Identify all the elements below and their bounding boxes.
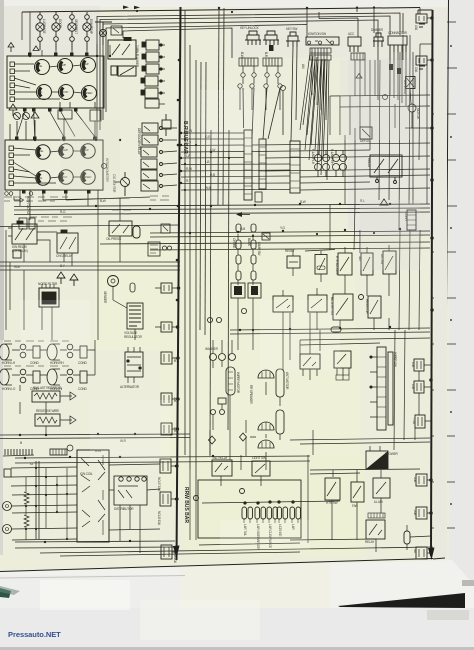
dark connector block [39, 288, 59, 307]
condenser C6 [33, 371, 40, 383]
wire loop 5 [123, 28, 232, 58]
svg-text:RESET: RESET [285, 249, 295, 253]
relay RW2 [334, 351, 351, 368]
svg-text:G-W: G-W [186, 129, 192, 133]
wires [340, 245, 389, 330]
connector vertical right [407, 210, 416, 230]
svg-text:DISTRIBUTOR: DISTRIBUTOR [114, 507, 134, 511]
relay RW1 [300, 354, 320, 369]
switch SW2 [308, 295, 327, 312]
fuse HOLD top right of column [162, 114, 171, 136]
lamp pair T1 [242, 507, 247, 519]
wire loop 1 [97, 13, 400, 140]
relay K3 [146, 64, 159, 74]
svg-text:W-B: W-B [205, 186, 211, 190]
fan lines [181, 132, 244, 134]
resistor vertical [404, 531, 410, 544]
gauge A6 [82, 86, 97, 101]
bus top corner [418, 10, 433, 14]
bus bar B-R vertical [177, 7, 181, 560]
wires [213, 340, 232, 430]
speaker S3 [258, 440, 274, 448]
svg-text:WITH TACHO: WITH TACHO [26, 196, 30, 215]
connector box CL2 [29, 218, 35, 229]
lamp pair T3 [267, 507, 272, 519]
svg-text:CONNECTOR: CONNECTOR [388, 31, 408, 35]
fuse BF2 [416, 507, 427, 519]
relay K6 [145, 99, 159, 108]
lamp pair T2 [255, 507, 260, 519]
sender circle [108, 276, 119, 287]
vertical connector strip [36, 461, 39, 539]
svg-text:LAMP SW: LAMP SW [257, 242, 261, 255]
svg-text:RESISTOR: RESISTOR [365, 299, 369, 315]
svg-text:OIL PRESS: OIL PRESS [106, 237, 121, 241]
circles far [281, 86, 286, 91]
comb connector 2 [50, 449, 67, 455]
relay M2 [142, 135, 158, 145]
verticals center low [238, 313, 320, 370]
lamp L1 [36, 23, 44, 31]
switch BR3 [373, 478, 390, 498]
svg-text:AM: AM [301, 64, 305, 69]
relay M4 [141, 159, 157, 169]
ground arrows [57, 272, 65, 284]
svg-text:KEY SW: KEY SW [286, 27, 297, 31]
svg-text:HORN RH: HORN RH [50, 361, 64, 365]
switch box near top [252, 461, 270, 476]
connector bar CB1 [244, 130, 252, 200]
connector tabs top edge B [15, 137, 19, 141]
relay R-B [57, 233, 78, 253]
light strip between bus and border [434, 10, 447, 558]
connector tabs top edge [28, 53, 32, 57]
label texture rows mid-left [4, 196, 169, 366]
ignition pin wires down [312, 60, 327, 120]
small box right of lighter [161, 224, 170, 233]
connector tabs bottom edge [23, 108, 27, 112]
svg-text:HTR BLOWER: HTR BLOWER [335, 256, 339, 276]
washer pump circles [210, 354, 217, 361]
svg-text:HTR SW: HTR SW [326, 501, 338, 505]
fuse FC6 [161, 545, 172, 559]
diamond [240, 433, 247, 441]
extra trunk line [0, 225, 180, 227]
terminal circles under box [5, 192, 9, 196]
svg-text:RRW BUS BAR: RRW BUS BAR [183, 487, 189, 523]
condenser C8 [80, 371, 87, 383]
svg-text:SEAT BELT: SEAT BELT [74, 19, 78, 34]
horn H1 [0, 344, 12, 360]
relay K1 [146, 40, 159, 50]
diode pair boxes [58, 110, 72, 119]
relay K4 [145, 76, 158, 86]
relay M3 [141, 147, 157, 157]
contact points C7 [67, 369, 73, 375]
connector bar CB2 [259, 139, 266, 189]
rear relay [366, 520, 385, 539]
tab-to-tab drops [17, 112, 95, 137]
svg-text:DOOR: DOOR [58, 19, 62, 29]
svg-text:G-B: G-B [240, 227, 245, 231]
key cylinder KC1 [245, 31, 261, 40]
pin circles right [160, 127, 163, 130]
wires [246, 382, 280, 460]
tabs left dark [142, 42, 146, 47]
yellow patches mid [95, 230, 355, 350]
svg-text:RELAY: RELAY [365, 540, 375, 544]
gauge A4 [37, 85, 52, 100]
small caps above [236, 224, 241, 232]
cluster B internal wires [13, 148, 81, 183]
svg-text:DIMMER: DIMMER [371, 28, 384, 32]
small circles below [241, 73, 245, 77]
dark tab under KC1 [269, 45, 274, 51]
lamp pair HP1 [315, 155, 322, 162]
switch box HS4 [333, 294, 353, 320]
ground arrow [380, 199, 388, 205]
stems [244, 519, 298, 523]
links to bus [171, 358, 177, 552]
reset box [287, 256, 300, 268]
relay M6 [141, 181, 158, 191]
svg-text:BLOWER: BLOWER [385, 452, 399, 456]
small component above relay [111, 26, 122, 35]
fuse HOLD mid-left [155, 283, 180, 293]
bottom gray band [0, 608, 474, 650]
voltage regulator dark box [127, 303, 143, 329]
svg-text:WIPER MOTOR: WIPER MOTOR [236, 372, 240, 394]
fuse FC3 [161, 423, 172, 435]
svg-text:ILLUM: ILLUM [374, 500, 383, 504]
ignition switch contacts block [306, 37, 339, 45]
key cylinder KC2 [263, 31, 279, 40]
scan mottling patches [20, 60, 420, 640]
svg-text:BALLAST RESISTOR: BALLAST RESISTOR [33, 386, 62, 390]
junction dots grid [25, 467, 68, 540]
svg-text:R-G: R-G [60, 210, 66, 214]
switch BR1 [325, 478, 340, 500]
left verticals [6, 230, 52, 340]
left scan edge gray strip [0, 0, 4, 340]
svg-text:TEMP: TEMP [60, 64, 66, 67]
component left of switch [212, 460, 232, 476]
svg-text:R-W: R-W [186, 167, 192, 171]
ignition funnel extra wires [300, 53, 329, 180]
svg-text:NO.15 15A: NO.15 15A [157, 511, 161, 526]
grid wires [11, 467, 77, 540]
svg-text:CHOKE: CHOKE [232, 238, 236, 248]
svg-text:COND: COND [30, 361, 39, 365]
contact points C1 [20, 344, 26, 350]
chain capsule c1 [236, 240, 241, 249]
svg-text:L-B: L-B [205, 160, 209, 164]
oil pressure box [109, 221, 132, 236]
switch box HS5 [368, 296, 381, 318]
speaker S2 [258, 422, 274, 430]
bus arrowhead B-B [428, 548, 435, 561]
connector box CL1 [19, 218, 27, 229]
top line arrows [123, 6, 140, 10]
small fuse left [13, 250, 21, 258]
circle between [359, 295, 364, 300]
wire stubs bus to border [431, 114, 447, 528]
svg-text:RR SPEAKER: RR SPEAKER [249, 385, 253, 404]
gauge dark caps B [15, 137, 97, 194]
right side verticals below mid [394, 230, 420, 450]
cluster B notch [102, 164, 107, 169]
svg-text:WASHER: WASHER [205, 347, 219, 351]
svg-text:ACC: ACC [348, 32, 355, 36]
svg-text:LUGGAGE: LUGGAGE [42, 19, 46, 33]
ignition harness fan-down wires [303, 60, 327, 160]
bottom trunk wires [15, 456, 310, 458]
connector [218, 398, 226, 404]
svg-text:IGN COIL: IGN COIL [80, 472, 93, 476]
connector row under ACC [351, 53, 365, 60]
speaker S1 [258, 370, 274, 378]
connector tabs bottom edge B [22, 190, 26, 194]
switch box HS1 [338, 253, 352, 275]
wires below ignition [243, 66, 278, 73]
top-right corner dark mark [462, 580, 474, 586]
switch box HS2 [361, 253, 373, 275]
horizontals lower right [290, 338, 430, 444]
small box left [4, 469, 11, 477]
capsule P1 [276, 369, 284, 397]
bottom margin below diagram [0, 560, 474, 650]
comb connector 1 [3, 449, 34, 456]
svg-text:MOTOR: MOTOR [416, 108, 420, 120]
horn H2 [47, 344, 60, 360]
relay M5 [141, 170, 157, 180]
gauge labels A [37, 63, 89, 68]
fuse label marks [419, 24, 425, 69]
svg-text:H.LAMP RH: H.LAMP RH [330, 149, 334, 165]
ignition feed drop [307, 8, 420, 38]
switch box HS3 [383, 251, 396, 274]
antenna box [406, 77, 416, 89]
cluster B bottom wires [0, 190, 180, 227]
relay RC1 [231, 283, 245, 298]
cluster A outline [7, 56, 104, 108]
relay R-A [12, 224, 37, 244]
horn H3 [0, 369, 12, 385]
fuse FC1 [161, 352, 172, 364]
fan to right side long [252, 143, 430, 145]
fuse FC2 [161, 393, 172, 405]
gauge A2 [58, 59, 73, 74]
key cylinder KC3 [286, 32, 300, 41]
fuse F2 [416, 56, 427, 65]
verticals right area going down [360, 44, 420, 230]
switch SW1 [273, 296, 293, 312]
bus bar B-B vertical [431, 10, 433, 556]
wires [310, 469, 420, 552]
connector bar CB3 [290, 141, 300, 193]
svg-text:SENDER: SENDER [103, 291, 107, 304]
cluster A top feed wires [22, 12, 110, 56]
gauge dark caps [23, 53, 89, 112]
ground triangle under connector [356, 74, 362, 79]
junction dots on bus [431, 17, 434, 20]
svg-text:FAN: FAN [352, 504, 358, 508]
contact points C5 [20, 369, 26, 375]
relay K2 [146, 52, 159, 62]
small x-box left of chains top [255, 192, 270, 240]
fuse FC4 [160, 459, 171, 473]
big connector top-right [388, 36, 407, 45]
svg-text:HORN LO: HORN LO [2, 387, 16, 391]
indicator lamp row circles [14, 113, 21, 120]
left arrow marker [236, 212, 250, 217]
fuse BF3 [416, 547, 427, 559]
svg-text:BACK: BACK [247, 238, 251, 247]
gauge A1 [35, 60, 50, 75]
svg-text:CHG.RELAY: CHG.RELAY [56, 254, 73, 258]
pins under relay RW2 [336, 375, 349, 380]
svg-text:ALTERNATOR: ALTERNATOR [120, 385, 140, 389]
bent arrow [14, 196, 24, 202]
svg-text:DEFOGGER RELAY: DEFOGGER RELAY [137, 128, 141, 156]
distributor box [114, 476, 147, 505]
switch BR2 [351, 482, 364, 502]
diamond 2 [209, 436, 216, 444]
tachometer connector [130, 242, 247, 314]
svg-text:B-W: B-W [100, 199, 106, 203]
gauge labels B [38, 149, 89, 153]
svg-text:SPEED: SPEED [85, 92, 93, 95]
fuse FR3 [415, 415, 425, 428]
capsule P2 [276, 410, 284, 434]
internal marks [143, 126, 150, 189]
top trunk wire [22, 8, 420, 13]
svg-text:IGNITION SW: IGNITION SW [308, 32, 326, 36]
blower motor dark box [366, 451, 388, 469]
right page border [445, 0, 449, 558]
fuse F1 [416, 14, 427, 23]
svg-text:R-B: R-B [210, 173, 215, 177]
svg-text:NOISE FILTER: NOISE FILTER [38, 282, 58, 286]
fuse FR2 [414, 381, 424, 393]
small box left [111, 66, 117, 75]
row wires [12, 350, 95, 375]
resistor RB2 [35, 414, 60, 426]
terminal X2 [3, 525, 12, 534]
gauge B2 [59, 144, 73, 158]
terminal X1 [3, 502, 12, 511]
svg-text:TAIL RELAY: TAIL RELAY [212, 456, 229, 460]
faint shadow line under border [0, 576, 185, 579]
svg-text:RESISTIVE WIRE: RESISTIVE WIRE [36, 409, 59, 413]
component right of ignition [348, 37, 361, 46]
wires into cluster B [10, 119, 95, 140]
gray fan region top-right [348, 55, 448, 235]
lamp pair HP2 [333, 155, 340, 162]
small circles below [211, 410, 216, 415]
svg-text:COND: COND [78, 361, 87, 365]
lamp L6 small [99, 29, 106, 36]
svg-text:FUEL: FUEL [38, 150, 44, 153]
svg-text:WIPER SW: WIPER SW [393, 352, 397, 367]
capsule lower [331, 327, 341, 332]
bottom diagram border [0, 559, 433, 572]
fuse FC5 [160, 492, 171, 506]
svg-text:LIGHT SW: LIGHT SW [252, 456, 266, 460]
svg-text:COND: COND [78, 387, 87, 391]
gauge B5 [59, 170, 73, 184]
teal smudge bottom left [0, 588, 11, 598]
resistor coil 1 [24, 492, 29, 504]
cluster B pin column [9, 146, 14, 186]
gauge B4 [36, 171, 50, 185]
right margin beyond page edge [449, 0, 474, 585]
gauge B6 [81, 170, 95, 184]
relay RC2 [248, 283, 261, 298]
lamp L2 [52, 23, 60, 31]
svg-text:B.R.BUS BAR: B.R.BUS BAR [182, 121, 188, 154]
gauge B1 [36, 145, 50, 159]
wires [113, 198, 135, 340]
lamp pair T4 [277, 507, 282, 519]
svg-text:HORN LH: HORN LH [2, 361, 16, 365]
svg-text:RELAY: RELAY [367, 158, 371, 168]
gauge A5 [59, 85, 74, 100]
wire trunk horizontals mid-page [14, 204, 430, 207]
junction circle [194, 496, 199, 501]
flasher box [118, 66, 136, 76]
pin dots right [158, 45, 165, 104]
svg-text:REGULATOR: REGULATOR [124, 335, 143, 339]
gauge A3 [81, 58, 96, 73]
ignition main switch block [77, 450, 109, 542]
svg-text:Y-G: Y-G [280, 226, 285, 230]
svg-text:ANT MOTOR: ANT MOTOR [285, 372, 289, 390]
connector strip under ignition [310, 48, 331, 60]
circles row lower [208, 318, 213, 323]
svg-text:EXH.TEMP: EXH.TEMP [89, 19, 93, 34]
wire loop 4 [106, 25, 307, 113]
lamp L5 feed wires [40, 12, 87, 15]
condenser C4 [80, 346, 87, 358]
svg-text:B: B [20, 441, 22, 445]
svg-text:TURN FLASHER: TURN FLASHER [135, 45, 139, 68]
svg-text:W-B: W-B [14, 265, 20, 269]
relay M1 [142, 123, 158, 133]
fuse BF1 [416, 474, 427, 486]
wires [8, 228, 72, 266]
capsule [133, 226, 140, 238]
relay K5 [145, 88, 158, 98]
resistor RB1 [32, 391, 60, 402]
connector row above relay [368, 513, 385, 518]
svg-text:B-W: B-W [240, 52, 244, 58]
gauge B3 [81, 144, 95, 158]
gray cast top-left [0, 0, 474, 7]
ground arrow G2 [31, 112, 39, 118]
horn H4 [47, 369, 60, 385]
wedge soft shadow below [427, 610, 469, 620]
ground arrows above cluster A [8, 43, 39, 53]
lamp X crosses [37, 24, 106, 36]
svg-text:TACHO: TACHO [61, 91, 69, 94]
svg-text:NO.17 15A: NO.17 15A [157, 477, 161, 492]
wiper motor capsule [226, 367, 235, 395]
wire trunk verticals center band [184, 10, 186, 455]
resistor coil 2 [24, 515, 29, 527]
cluster B outline [5, 140, 103, 190]
lamp L4 [83, 23, 91, 31]
